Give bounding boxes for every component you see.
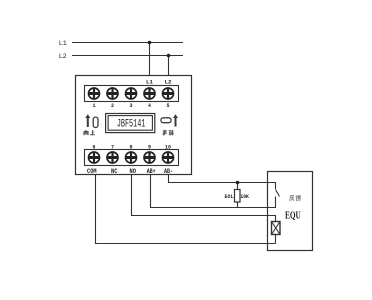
svg-text:COM: COM bbox=[87, 168, 97, 175]
svg-text:7: 7 bbox=[111, 145, 114, 151]
svg-text:4: 4 bbox=[148, 103, 151, 109]
svg-text:NO: NO bbox=[130, 168, 137, 175]
svg-text:5: 5 bbox=[166, 103, 169, 109]
svg-text:NC: NC bbox=[111, 168, 118, 175]
svg-text:8: 8 bbox=[129, 145, 132, 151]
svg-text:AB+: AB+ bbox=[147, 168, 156, 175]
svg-text:10: 10 bbox=[165, 145, 171, 151]
svg-text:2: 2 bbox=[111, 103, 114, 109]
svg-text:6: 6 bbox=[92, 145, 95, 151]
svg-text:L2: L2 bbox=[59, 53, 67, 60]
svg-text:1: 1 bbox=[92, 103, 95, 109]
svg-text:L2: L2 bbox=[165, 79, 172, 85]
svg-text:10K: 10K bbox=[240, 193, 249, 200]
svg-text:L1: L1 bbox=[59, 40, 67, 47]
svg-text:9: 9 bbox=[148, 145, 151, 151]
svg-text:AB-: AB- bbox=[164, 168, 173, 175]
svg-text:L1: L1 bbox=[146, 79, 153, 85]
svg-text:EQU: EQU bbox=[285, 210, 301, 221]
svg-text:JBF5141: JBF5141 bbox=[117, 119, 146, 131]
svg-text:3: 3 bbox=[129, 103, 132, 109]
svg-text:EOL: EOL bbox=[225, 193, 235, 200]
